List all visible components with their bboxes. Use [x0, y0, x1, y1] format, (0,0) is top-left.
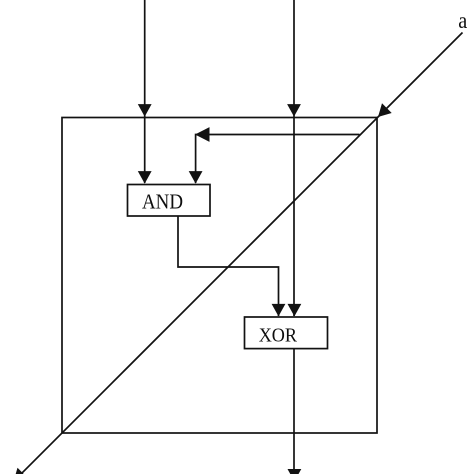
arrowhead: left input into AND box	[138, 171, 152, 184]
svg-text:AND: AND	[142, 190, 183, 214]
wire: AND output elbow to XOR input	[178, 216, 279, 316]
arrowhead: AND output into XOR box	[272, 304, 286, 317]
arrowhead: XOR output at bottom edge (clipped)	[288, 469, 302, 474]
arrowhead: feedback elbow into AND box	[189, 171, 203, 184]
AND gate box	[128, 185, 211, 217]
wire: left input vertical line into AND	[144, 0, 146, 183]
svg-text:XOR: XOR	[259, 325, 298, 347]
arrowhead: diagonal a at block top-right corner	[378, 103, 392, 117]
XOR gate box	[245, 317, 328, 349]
block boundary (outer square of the cell)	[62, 118, 377, 434]
wire: feedback elbow from diagonal to AND (horizontal then down)	[196, 135, 360, 184]
arrowhead: diagonal a at bottom-left end (clipped)	[14, 468, 28, 474]
wire: XOR output vertical line to bottom	[293, 349, 295, 472]
arrowhead: right input into XOR box	[288, 304, 302, 317]
svg-text:a: a	[458, 8, 467, 33]
arrowhead: left input at block boundary	[138, 104, 152, 117]
arrowhead: right input at block boundary	[287, 104, 301, 117]
arrowhead: feedback elbow pointing left	[195, 127, 210, 142]
wire: right input vertical line into XOR	[293, 0, 295, 316]
